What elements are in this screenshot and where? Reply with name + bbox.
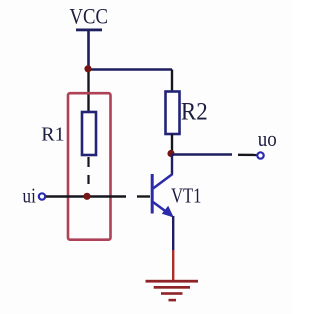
collector stub xyxy=(171,155,173,175)
resistor R2 xyxy=(166,92,180,135)
wire R2 top stub xyxy=(171,70,173,93)
svg-text:uo: uo xyxy=(258,128,277,151)
terminal uo circle xyxy=(257,152,263,158)
svg-text:VT1: VT1 xyxy=(171,185,202,208)
wire junction1 down to R1 xyxy=(87,70,89,114)
wire VCC stub down xyxy=(87,31,90,70)
svg-text:VCC: VCC xyxy=(70,4,108,29)
svg-text:R1: R1 xyxy=(41,123,64,145)
node B junction dot xyxy=(83,193,90,200)
svg-text:ui: ui xyxy=(23,185,36,208)
svg-text:R2: R2 xyxy=(181,98,208,126)
wire dashed below R1 xyxy=(87,157,89,167)
emitter diagonal xyxy=(153,202,172,216)
emitter arrowhead xyxy=(162,206,174,218)
base bar xyxy=(151,174,154,214)
resistor R1 xyxy=(82,112,96,155)
transistor VT1 xyxy=(152,155,174,218)
wire dash before uo xyxy=(238,154,257,157)
node C junction dot xyxy=(167,150,174,157)
terminal ui circle xyxy=(39,193,45,199)
highlight box around R1 xyxy=(68,93,111,240)
ground xyxy=(146,280,199,302)
node A junction dot xyxy=(84,65,91,72)
wire emitter down navy part xyxy=(172,216,174,250)
wire emitter down red part xyxy=(172,250,174,280)
collector diagonal xyxy=(153,174,173,189)
power symbol VCC bar xyxy=(76,29,102,32)
wire ui to junction xyxy=(46,195,126,197)
wire junction to uo xyxy=(172,153,232,155)
wire dash to base xyxy=(137,195,150,197)
wire rail to R2 branch xyxy=(89,68,173,71)
wire R2 bottom stub xyxy=(171,134,173,155)
